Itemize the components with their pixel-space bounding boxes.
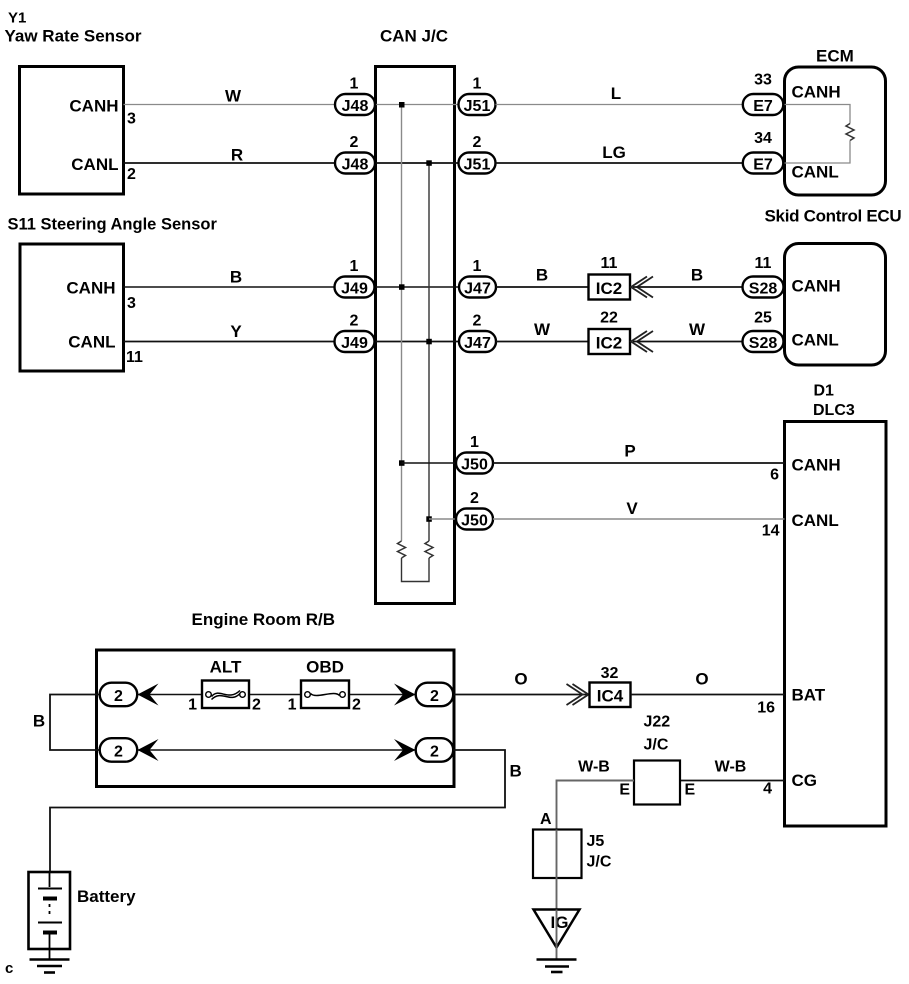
svg-text:OBD: OBD bbox=[306, 658, 344, 677]
svg-text:J47: J47 bbox=[464, 281, 491, 298]
svg-text:J48: J48 bbox=[342, 98, 369, 115]
wire row8 inside R/B bbox=[137, 749, 415, 751]
svg-text:S28: S28 bbox=[749, 335, 778, 352]
DLC3 box bbox=[785, 422, 887, 827]
wire stub bus2 to J50-2 bbox=[429, 518, 457, 520]
svg-text:J22: J22 bbox=[644, 714, 671, 731]
connector J49 pin1 bbox=[335, 277, 375, 298]
wire LG J51 to E7 bbox=[496, 162, 744, 164]
svg-text:2: 2 bbox=[114, 744, 123, 761]
shield chevrons row4 bbox=[631, 331, 653, 352]
Skid Control ECU box bbox=[785, 244, 886, 366]
IC4 box bbox=[590, 683, 631, 708]
connector 2 (top right) bbox=[416, 683, 454, 707]
J5 junction box bbox=[533, 830, 582, 879]
ECM box bbox=[785, 67, 886, 195]
svg-text:2: 2 bbox=[430, 688, 439, 705]
svg-text:B: B bbox=[691, 266, 703, 285]
connector S28 pin25 bbox=[743, 331, 784, 352]
svg-text:J49: J49 bbox=[341, 335, 368, 352]
resistor in CAN J/C (right) bbox=[425, 541, 433, 558]
svg-text:3: 3 bbox=[127, 295, 136, 312]
junction dot row6 bbox=[426, 516, 432, 522]
wire through J5 to IG bbox=[556, 830, 558, 910]
svg-text:J51: J51 bbox=[464, 98, 491, 115]
wire bracket B (battery feed to left connectors) bbox=[50, 695, 100, 751]
svg-text:CANH: CANH bbox=[66, 279, 115, 298]
connector J47 pin2 bbox=[459, 331, 496, 352]
CAN bus vertical line 2 bbox=[428, 163, 430, 541]
shield chevrons row3 bbox=[631, 277, 653, 298]
connector 2 (top left) bbox=[100, 683, 138, 707]
svg-text:25: 25 bbox=[754, 310, 772, 327]
yaw rate sensor box Y1 bbox=[20, 67, 124, 195]
svg-text:2: 2 bbox=[127, 166, 136, 183]
svg-text:2: 2 bbox=[350, 134, 359, 151]
svg-text:1: 1 bbox=[288, 697, 297, 714]
wire row7 inside R/B bbox=[137, 694, 415, 696]
svg-text:O: O bbox=[695, 670, 708, 689]
svg-text:D1: D1 bbox=[814, 383, 835, 400]
connector 2 (bottom left) bbox=[100, 738, 138, 762]
svg-text:34: 34 bbox=[754, 130, 772, 147]
svg-text:1: 1 bbox=[473, 76, 482, 93]
svg-text:P: P bbox=[624, 442, 635, 461]
arrow (top right, pointing right) bbox=[394, 684, 416, 706]
svg-text:ALT: ALT bbox=[210, 658, 242, 677]
svg-text:1: 1 bbox=[350, 76, 359, 93]
wire P J50 to DLC3 CANH bbox=[493, 462, 785, 464]
svg-text:V: V bbox=[626, 499, 638, 518]
wire W J47 to IC2 row4 bbox=[496, 341, 589, 343]
svg-text:2: 2 bbox=[473, 134, 482, 151]
svg-text:IG: IG bbox=[551, 913, 569, 932]
U link below resistors bbox=[402, 558, 430, 582]
connector J51 pin1 bbox=[459, 94, 496, 115]
svg-text:CG: CG bbox=[792, 771, 818, 790]
wire L J51 to E7 bbox=[496, 104, 744, 106]
svg-text:CANL: CANL bbox=[792, 331, 839, 350]
svg-text:W: W bbox=[225, 87, 242, 106]
svg-text:S28: S28 bbox=[749, 281, 778, 298]
svg-text:CANL: CANL bbox=[792, 163, 839, 182]
connector E7 pin34 bbox=[743, 153, 784, 174]
wire W-B J22 to ground path bbox=[557, 781, 635, 830]
svg-text:CANL: CANL bbox=[792, 511, 839, 530]
svg-text:J50: J50 bbox=[461, 457, 488, 474]
svg-text:J/C: J/C bbox=[644, 737, 669, 754]
svg-text:L: L bbox=[611, 84, 621, 103]
arrow (top left, pointing left) bbox=[138, 684, 159, 706]
resistor in CAN J/C (left) bbox=[398, 541, 406, 558]
svg-text:B: B bbox=[230, 268, 242, 287]
svg-text:W: W bbox=[534, 320, 551, 339]
ECM internal wire CANH bbox=[785, 105, 851, 124]
svg-text:c: c bbox=[5, 960, 13, 977]
battery box bbox=[29, 872, 71, 949]
svg-text:J48: J48 bbox=[342, 157, 369, 174]
IC2 box row4 bbox=[589, 329, 631, 354]
svg-text:E7: E7 bbox=[753, 98, 773, 115]
svg-text:1: 1 bbox=[188, 697, 197, 714]
connector J51 pin2 bbox=[459, 153, 496, 174]
svg-text:B: B bbox=[33, 712, 45, 731]
svg-text:E7: E7 bbox=[753, 157, 773, 174]
wire row2 inside CAN J/C bbox=[376, 162, 461, 164]
svg-text:CANH: CANH bbox=[69, 97, 118, 116]
ECM internal wire CANL bbox=[785, 141, 851, 164]
svg-text:CANL: CANL bbox=[71, 155, 118, 174]
stub IG to ground bbox=[556, 910, 558, 960]
connector E7 pin33 bbox=[743, 94, 784, 115]
wire W IC2 to S28 row4 bbox=[633, 341, 743, 343]
wire O R/B to IC4 bbox=[454, 694, 589, 696]
wire B J47 to IC2 row3 bbox=[496, 286, 589, 288]
IC2 box row3 bbox=[589, 275, 631, 300]
svg-text:IC4: IC4 bbox=[597, 687, 624, 706]
svg-text:11: 11 bbox=[601, 255, 618, 272]
wire Y s11 CANL to J49 bbox=[124, 341, 336, 343]
arrow (bottom right, pointing right) bbox=[394, 739, 416, 761]
svg-text:Y1: Y1 bbox=[8, 10, 26, 27]
wire O IC4 to DLC3 BAT bbox=[631, 694, 785, 696]
svg-text:33: 33 bbox=[754, 72, 772, 89]
svg-text:CANL: CANL bbox=[68, 333, 115, 352]
svg-text:2: 2 bbox=[350, 313, 359, 330]
svg-text:22: 22 bbox=[600, 310, 618, 327]
wire row1 inside CAN J/C bbox=[376, 104, 461, 106]
svg-text:1: 1 bbox=[350, 258, 359, 275]
svg-text:IC2: IC2 bbox=[596, 279, 622, 298]
svg-text:3: 3 bbox=[127, 111, 136, 128]
svg-text:6: 6 bbox=[770, 467, 779, 484]
svg-text:J50: J50 bbox=[461, 513, 488, 530]
IG triangle bbox=[534, 910, 580, 948]
connector J49 pin2 bbox=[335, 331, 375, 352]
CAN J/C junction box bbox=[376, 67, 455, 604]
wire B s11 CANH to J49 bbox=[124, 286, 336, 288]
wire B R/B bottom right, down and across to battery bbox=[50, 750, 505, 872]
wire V J50 to DLC3 CANL bbox=[493, 518, 785, 520]
svg-text:11: 11 bbox=[755, 255, 772, 272]
terminating resistor in ECM bbox=[846, 124, 854, 141]
svg-text:CANH: CANH bbox=[792, 277, 841, 296]
steering angle sensor box S11 bbox=[20, 244, 124, 371]
svg-text:CAN J/C: CAN J/C bbox=[380, 27, 448, 46]
svg-text:ECM: ECM bbox=[816, 47, 854, 66]
wire B IC2 to S28 row3 bbox=[633, 286, 743, 288]
svg-text:CANH: CANH bbox=[792, 83, 841, 102]
junction dot row4 bbox=[426, 339, 432, 345]
svg-text:Y: Y bbox=[230, 322, 242, 341]
svg-text:DLC3: DLC3 bbox=[813, 402, 855, 419]
wire W-B DLC3 CG to J22 bbox=[680, 780, 785, 782]
connector 2 (bottom right) bbox=[416, 738, 454, 762]
svg-text:BAT: BAT bbox=[792, 686, 826, 705]
connector J48 pin1 bbox=[335, 94, 375, 115]
connector S28 pin11 bbox=[743, 277, 784, 298]
svg-text:IC2: IC2 bbox=[596, 334, 622, 353]
junction dot row5 bbox=[399, 460, 405, 466]
svg-text:11: 11 bbox=[126, 349, 143, 366]
svg-text:W-B: W-B bbox=[715, 759, 747, 776]
svg-text:E: E bbox=[619, 782, 630, 799]
wire stub bus1 to J50-1 bbox=[402, 462, 458, 464]
junction dot row3 bbox=[399, 284, 405, 290]
svg-text:LG: LG bbox=[602, 143, 626, 162]
J22 junction box bbox=[634, 761, 680, 805]
svg-text:1: 1 bbox=[473, 258, 482, 275]
connector J50 pin1 bbox=[456, 453, 493, 474]
svg-text:A: A bbox=[540, 811, 552, 828]
svg-text:J51: J51 bbox=[464, 157, 491, 174]
svg-text:CANH: CANH bbox=[792, 456, 841, 475]
svg-text:B: B bbox=[510, 762, 522, 781]
svg-text:2: 2 bbox=[430, 744, 439, 761]
svg-text:S11 Steering Angle Sensor: S11 Steering Angle Sensor bbox=[8, 216, 218, 234]
wire R yaw CANL to J48 bbox=[124, 162, 337, 164]
Engine Room R/B box bbox=[97, 650, 455, 787]
svg-text:W-B: W-B bbox=[578, 759, 610, 776]
wire W yaw CANH to J48 bbox=[124, 104, 337, 106]
svg-text:W: W bbox=[689, 320, 706, 339]
svg-text:R: R bbox=[231, 146, 243, 165]
svg-text:32: 32 bbox=[601, 665, 619, 682]
shield chevrons IC4 (pointing right) bbox=[567, 684, 589, 705]
svg-text:O: O bbox=[514, 670, 527, 689]
svg-text:2: 2 bbox=[114, 688, 123, 705]
svg-text:J47: J47 bbox=[464, 335, 491, 352]
CAN bus vertical line 1 bbox=[401, 105, 403, 542]
connector J50 pin2 bbox=[456, 509, 493, 530]
junction dot row2 bbox=[426, 160, 432, 166]
svg-text:Yaw Rate Sensor: Yaw Rate Sensor bbox=[5, 27, 142, 46]
wire row4 inside CAN J/C bbox=[376, 341, 461, 343]
svg-text:2: 2 bbox=[473, 313, 482, 330]
svg-text:B: B bbox=[536, 266, 548, 285]
svg-text:J5: J5 bbox=[587, 833, 605, 850]
svg-text:E: E bbox=[685, 782, 696, 799]
svg-text:2: 2 bbox=[252, 697, 261, 714]
arrow (bottom left, pointing left) bbox=[138, 739, 159, 761]
junction dot row1 bbox=[399, 102, 405, 108]
svg-text:4: 4 bbox=[763, 781, 772, 798]
svg-text:2: 2 bbox=[352, 697, 361, 714]
svg-text:J/C: J/C bbox=[587, 854, 612, 871]
wire row3 inside CAN J/C bbox=[376, 286, 461, 288]
ground (battery) bbox=[30, 958, 70, 961]
connector J47 pin1 bbox=[459, 277, 496, 298]
connector J48 pin2 bbox=[335, 153, 375, 174]
ground (IG) bbox=[537, 958, 577, 961]
svg-text:Battery: Battery bbox=[77, 887, 136, 906]
svg-text:14: 14 bbox=[762, 523, 780, 540]
svg-text:Engine Room R/B: Engine Room R/B bbox=[192, 610, 336, 629]
svg-text:1: 1 bbox=[470, 434, 479, 451]
svg-text:Skid Control ECU: Skid Control ECU bbox=[765, 207, 902, 226]
svg-text:J49: J49 bbox=[341, 281, 368, 298]
battery internals bbox=[49, 872, 51, 887]
svg-text:2: 2 bbox=[470, 490, 479, 507]
svg-text:16: 16 bbox=[757, 700, 775, 717]
